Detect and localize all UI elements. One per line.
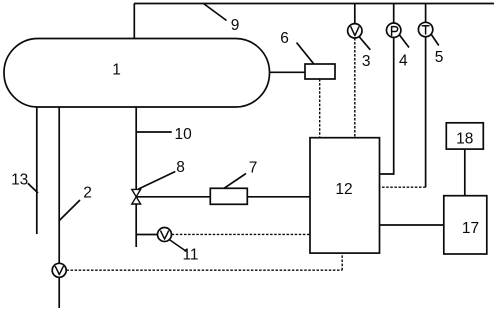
svg-text:4: 4	[399, 52, 408, 69]
svg-text:2: 2	[83, 184, 92, 201]
svg-text:11: 11	[182, 247, 198, 264]
svg-text:12: 12	[335, 181, 352, 198]
svg-text:13: 13	[11, 172, 28, 189]
svg-text:9: 9	[231, 17, 240, 34]
svg-text:1: 1	[112, 61, 121, 78]
svg-text:18: 18	[456, 131, 473, 148]
svg-text:3: 3	[362, 53, 371, 70]
svg-text:5: 5	[435, 49, 444, 66]
svg-text:17: 17	[462, 220, 479, 237]
svg-text:6: 6	[280, 30, 289, 47]
svg-text:8: 8	[176, 159, 185, 176]
svg-text:7: 7	[249, 159, 258, 176]
svg-text:10: 10	[175, 126, 193, 143]
